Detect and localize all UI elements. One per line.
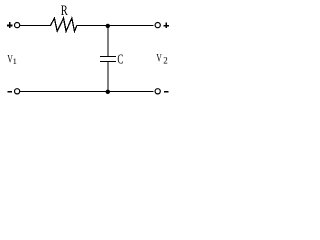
capacitor C bottom plate [100,61,116,62]
terminal T2 circle (output +) [155,23,160,28]
wire capacitor bottom [107,62,109,92]
resistor R zigzag [51,18,77,31]
wire top left [19,25,51,27]
svg-text:2: 2 [163,55,168,65]
terminal T4 circle (output -) [155,89,160,94]
svg-text:R: R [61,3,68,19]
terminal T3 circle (input -) [15,89,20,94]
capacitor C top plate [100,56,116,57]
terminal T1 plus sign [7,22,12,28]
svg-text:1: 1 [13,56,17,66]
svg-text:V: V [156,50,162,64]
junction node top [106,24,110,28]
wire capacitor top [107,26,109,56]
svg-text:C: C [117,52,123,67]
terminal T2 plus sign [163,22,169,28]
junction node bottom [106,90,110,94]
terminal T4 minus sign [164,91,169,93]
wire top right [77,25,154,27]
bottom wire [19,91,153,93]
terminal T3 minus sign [7,91,12,93]
terminal T1 circle (input +) [15,23,20,28]
